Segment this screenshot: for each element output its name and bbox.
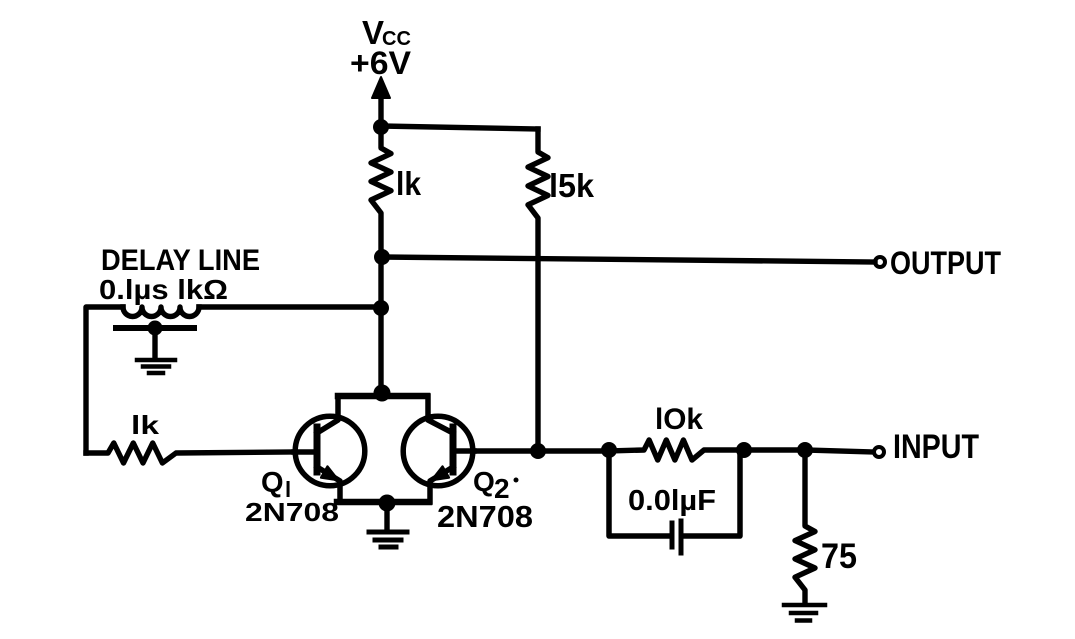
resistor R 75 (795, 450, 815, 604)
svg-text:Q: Q (261, 467, 284, 499)
svg-text:lOk: lOk (655, 403, 703, 436)
ground (input 75) (784, 605, 825, 621)
svg-text:0.0lµF: 0.0lµF (628, 485, 716, 517)
wire top horizontal to 15k (381, 126, 538, 129)
svg-text:2N708: 2N708 (437, 499, 533, 534)
wire Vcc stem (378, 93, 383, 127)
svg-text:75: 75 (821, 537, 857, 576)
wire capacitor loop left (609, 450, 668, 536)
node 75 junction (797, 442, 813, 458)
wire to 75 node (744, 447, 805, 452)
wire delay line to left corner (86, 307, 123, 453)
capacitor C 0.01uF (672, 521, 681, 553)
wire delay line left segment (199, 304, 381, 309)
wire OUTPUT line (382, 257, 875, 262)
node top junction (373, 119, 389, 135)
label Q2 (473, 466, 519, 504)
node delay line cap junction (148, 321, 163, 336)
node cap-right junction (736, 442, 752, 458)
wire to input terminal (805, 450, 873, 452)
transistor Q1 (294, 396, 365, 502)
delay line coil (123, 307, 199, 317)
svg-text:Q: Q (473, 466, 495, 497)
wire vertical collector feed (378, 257, 383, 396)
delay line capacitor bar (116, 325, 194, 331)
power Vcc label (350, 14, 412, 81)
OUTPUT terminal circle (875, 257, 885, 267)
node delay-line junction (373, 300, 389, 316)
INPUT terminal circle (874, 447, 884, 457)
wire collector top bar (338, 393, 427, 400)
wire Q2 base to input (474, 448, 609, 453)
wire delay line ground stem (152, 328, 157, 358)
resistor R 10k (609, 440, 744, 460)
svg-text:l5k: l5k (549, 167, 595, 204)
svg-text:+6V: +6V (350, 45, 412, 81)
ground (delay line) (137, 360, 175, 373)
svg-text:INPUT: INPUT (893, 428, 979, 466)
svg-text:DELAY LINE: DELAY LINE (101, 244, 260, 277)
wire capacitor loop right (685, 450, 740, 536)
node emitter bar junction (379, 495, 396, 512)
ground (emitters) (369, 532, 407, 547)
resistor R 15k (528, 129, 548, 450)
transistor Q2 (403, 396, 474, 502)
svg-text:lk: lk (131, 410, 160, 440)
wire emitter ground stem (384, 503, 389, 529)
resistor R 1k (top) (371, 127, 391, 257)
wire emitter bottom bar (337, 499, 429, 506)
svg-text:0.lµs lkΩ: 0.lµs lkΩ (99, 274, 228, 305)
node collector bar junction (374, 385, 391, 402)
label Q1 (261, 467, 291, 502)
node 15k-input junction (530, 443, 546, 459)
svg-text:lk: lk (396, 165, 422, 202)
Vcc arrow symbol (372, 77, 390, 98)
node cap-left junction (601, 442, 617, 458)
svg-text:OUTPUT: OUTPUT (890, 245, 1001, 281)
svg-text:2N708: 2N708 (245, 497, 339, 527)
node output junction (374, 249, 390, 265)
resistor R 1k (left) (86, 443, 294, 463)
